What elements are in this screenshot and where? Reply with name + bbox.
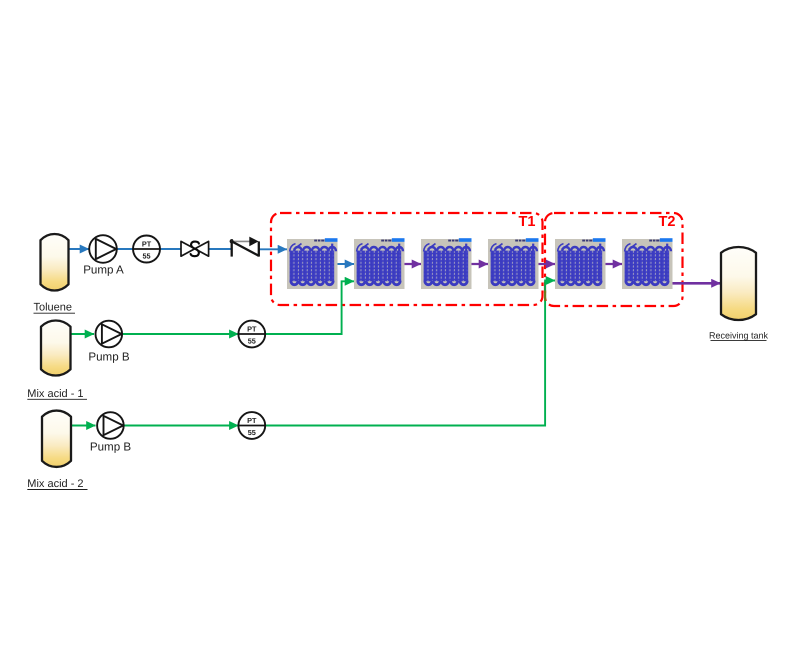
valve V1 (shut-off valve with S) [181,241,209,256]
gauge PT-55b (pressure transmitter) [238,321,265,348]
svg-text:PT: PT [142,239,152,248]
wire: Mix acid 1 tank to Pump B1 (green arrow) [71,333,95,335]
wire: module 5 to module 6 (purple arrow) [606,263,623,265]
wire: gauge PT-55c to reactor module 5 (green, up and over) [265,281,555,426]
svg-text:Pump A: Pump A [83,264,124,277]
wire: gauge PT-55b to reactor module 2 (green, up and over) [265,281,354,334]
gauge PT-55a (pressure transmitter) [133,236,160,263]
svg-text:PT: PT [247,324,257,333]
tank: Mix acid 2 feed tank [42,411,71,467]
svg-text:55: 55 [142,251,150,260]
reactor module 1 [287,238,338,289]
pump B1 (centrifugal pump symbol) [96,321,123,348]
reactor module 5 [555,238,606,289]
wire: Pump B2 to gauge PT-55c (green arrow) [124,425,239,427]
wire: valve V1 to check valve V2 [209,248,232,250]
wire: module 2 to module 3 (purple arrow) [405,263,422,265]
wire: check valve V2 to reactor module 1 (blue arrow) [259,248,287,250]
svg-text:55: 55 [248,428,256,437]
valve V2 (back pressure regulator / check valve) [230,237,259,257]
svg-text:55: 55 [248,336,256,345]
reactor module 4 [488,238,539,289]
wire: gauge PT-55a to valve V1 [160,248,181,250]
wire: Mix acid 2 tank to Pump B2 (green arrow) [71,425,96,427]
svg-text:PT: PT [247,416,257,425]
tank: receiving tank [721,247,756,320]
wire: module 1 to module 2 (blue arrow) [338,263,355,265]
svg-text:Mix acid - 2: Mix acid - 2 [27,478,83,490]
junction: green line overlaps T2 box edge [544,291,546,302]
reactor module 6 [622,238,673,289]
reactor section box T1 [271,213,543,305]
pump B2 (centrifugal pump symbol) [97,412,124,439]
pump A (centrifugal pump symbol) [89,235,117,263]
wire: Pump A to gauge PT-55a [117,248,133,250]
wire: module 4 to module 5 (purple arrow) [539,263,556,265]
svg-text:Pump B: Pump B [90,440,132,453]
svg-text:Pump B: Pump B [88,350,130,363]
tank: Mix acid 1 feed tank [41,320,71,375]
gauge PT-55c (pressure transmitter) [238,412,265,439]
wire: Pump B1 to gauge PT-55b (green arrow) [122,333,238,335]
svg-text:T1: T1 [519,214,536,230]
tank: Toluene feed tank [41,234,69,290]
svg-text:Mix acid - 1: Mix acid - 1 [27,388,83,400]
svg-text:Toluene: Toluene [34,302,73,314]
reactor section box T2 [545,213,683,306]
svg-text:T2: T2 [659,214,676,230]
reactor module 2 [354,238,405,289]
wire: module 6 to receiving tank (purple arrow) [672,282,721,285]
wire: Toluene tank to Pump A (blue arrow) [69,248,90,250]
reactor module 3 [421,238,472,289]
svg-text:Receiving tank: Receiving tank [709,330,769,340]
wire: module 3 to module 4 (purple arrow) [472,263,489,265]
